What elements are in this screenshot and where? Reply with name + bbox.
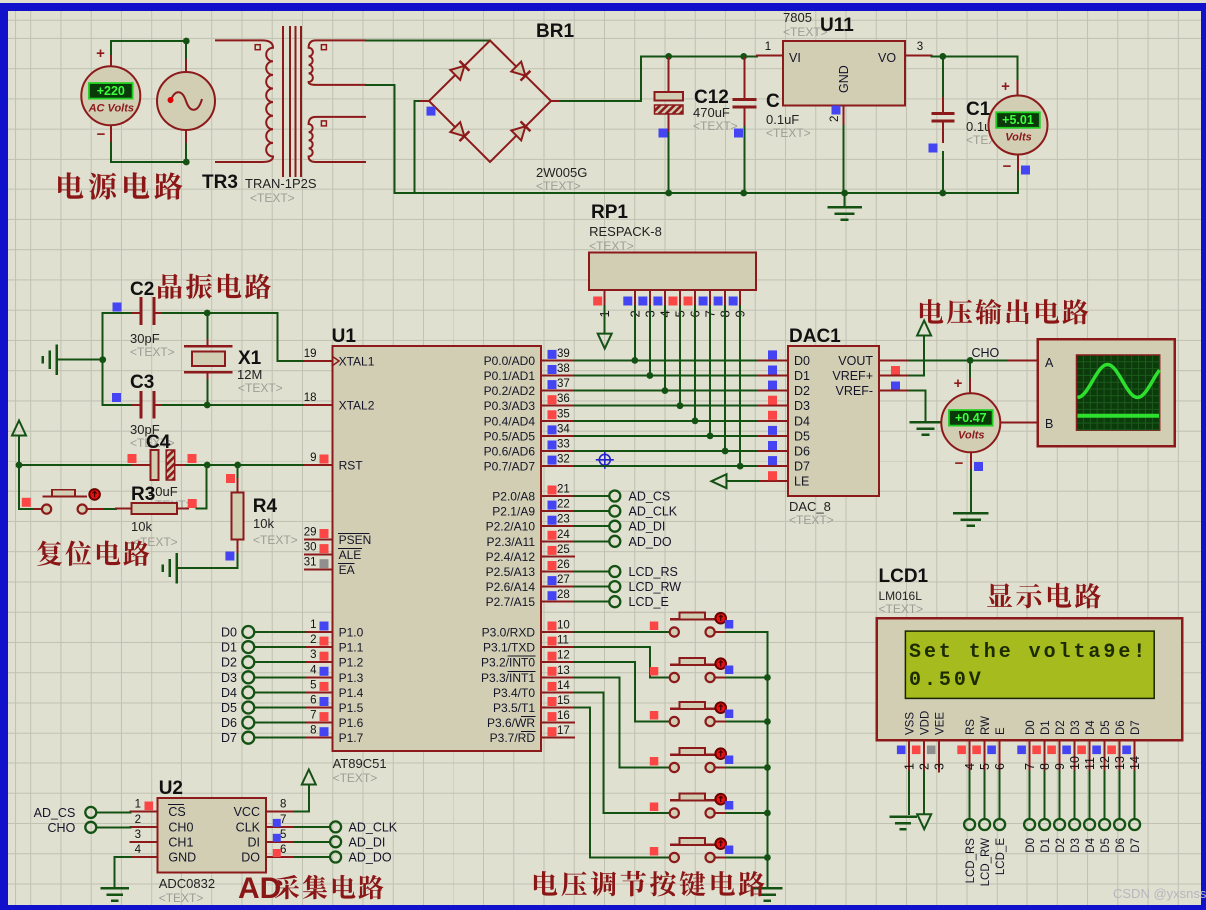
svg-text:AD_CS: AD_CS: [629, 490, 671, 504]
svg-text:D1: D1: [1040, 720, 1052, 735]
pin 37 P0.2/AD2: [541, 390, 574, 392]
svg-text:<TEXT>: <TEXT>: [250, 191, 295, 205]
svg-text:LCD_RS: LCD_RS: [629, 565, 678, 579]
terminal LCD_E: [609, 595, 668, 609]
pin 8 P1.7: [305, 737, 333, 739]
wire P2.2 to AD_DI: [574, 525, 609, 527]
svg-text:AD_DO: AD_DO: [629, 535, 672, 549]
RP1 pin 2: [623, 290, 642, 318]
wire P0.0 to DAC D0: [574, 359, 759, 361]
LCD pin 1 VSS: [897, 712, 917, 772]
svg-text:P2.7/A15: P2.7/A15: [486, 595, 536, 609]
wire D3 to P1.3: [255, 676, 305, 678]
wire RP1 pin2 to P0.0: [634, 306, 636, 360]
svg-text:EA: EA: [339, 563, 355, 577]
svg-text:P2.6/A14: P2.6/A14: [486, 580, 536, 594]
label AT89C51: [333, 756, 387, 785]
label C2 30pF: [130, 279, 175, 359]
title AD采集电路: [238, 872, 384, 905]
wire P3.3 to button4: [574, 677, 670, 767]
svg-text:P3.1/TXD: P3.1/TXD: [483, 641, 535, 655]
terminal LCD_E: [994, 819, 1007, 875]
svg-text:R4: R4: [253, 496, 278, 517]
svg-text:+: +: [96, 45, 105, 62]
svg-text:0.1uF: 0.1uF: [766, 112, 799, 127]
wire VREF- to ground: [910, 391, 926, 421]
DC voltmeter +5.01: [989, 78, 1048, 193]
wire P3.1 to button2: [574, 647, 670, 677]
svg-text:AD_DI: AD_DI: [349, 835, 386, 849]
terminal AD_DO: [609, 535, 672, 549]
svg-text:P1.0: P1.0: [339, 626, 364, 640]
wire RP1 pin5 to P0.3: [679, 306, 681, 406]
pin 18 XTAL2: [305, 404, 333, 406]
wire VO to output node: [932, 56, 1018, 81]
wire D4 to P1.4: [255, 691, 305, 693]
capacitor C1 0.1uF: [933, 56, 953, 193]
svg-text:12: 12: [1098, 756, 1112, 770]
ground symbol power rail: [844, 193, 846, 206]
U2 pin 2 CH0: [130, 814, 193, 835]
terminal AD_DI: [609, 520, 665, 534]
svg-text:CS: CS: [168, 805, 185, 819]
label RP1 RESPACK-8: [589, 202, 662, 253]
wire P0.1 to DAC D1: [574, 375, 759, 377]
svg-text:P2.4/A12: P2.4/A12: [486, 550, 536, 564]
wire LCD pin8 to terminal D1: [1044, 772, 1046, 819]
push button key4: [670, 748, 726, 772]
svg-text:VEE: VEE: [935, 712, 947, 735]
svg-text:D3: D3: [221, 671, 237, 685]
terminal AD_CLK: [609, 505, 677, 519]
svg-text:10: 10: [1068, 756, 1082, 770]
svg-text:D3: D3: [1070, 838, 1082, 853]
LCD pin 13 D6: [1107, 720, 1127, 771]
pin 2 P1.1: [305, 646, 333, 648]
svg-text:D2: D2: [221, 656, 237, 670]
pin 10 P3.0/RXD: [541, 631, 574, 633]
svg-text:VREF-: VREF-: [836, 384, 874, 398]
pin 6 P1.5: [305, 707, 333, 709]
wire button2 to bus: [726, 677, 767, 679]
push button reset: [34, 489, 104, 514]
svg-text:D6: D6: [794, 445, 810, 459]
node button bus: [764, 764, 771, 771]
svg-text:3: 3: [135, 829, 141, 841]
svg-text:AC Volts: AC Volts: [88, 102, 134, 114]
wire U2 to AD_DI: [295, 841, 330, 843]
svg-text:<TEXT>: <TEXT>: [693, 119, 738, 133]
svg-text:VSS: VSS: [905, 712, 917, 735]
svg-text:+: +: [954, 375, 963, 392]
svg-text:RW: RW: [980, 716, 992, 735]
svg-text:31: 31: [304, 557, 317, 569]
svg-text:15: 15: [557, 695, 570, 707]
wire button1 to bus: [726, 631, 767, 633]
wire D7 to P1.7: [255, 737, 305, 739]
svg-text:TRAN-1P2S: TRAN-1P2S: [245, 176, 317, 191]
svg-text:Set the volta9e!: Set the volta9e!: [909, 641, 1148, 664]
pin 7 P1.6: [305, 722, 333, 724]
DAC pin D4: [759, 411, 811, 429]
svg-text:D7: D7: [221, 731, 237, 745]
DAC pin D0: [759, 350, 811, 368]
ground symbol button bus: [753, 887, 781, 890]
DAC pin D6: [759, 441, 811, 459]
svg-text:CHO: CHO: [48, 821, 76, 835]
wire C4 to RST pin: [186, 464, 305, 466]
svg-text:8: 8: [310, 725, 316, 737]
title 显示电路: [987, 583, 1101, 608]
svg-text:D4: D4: [1085, 837, 1097, 852]
pin 1 VI: [757, 55, 783, 57]
svg-text:+220: +220: [97, 84, 125, 98]
svg-text:<TEXT>: <TEXT>: [130, 345, 175, 359]
node button bus: [764, 718, 771, 725]
AC voltmeter PV1 (+220 AC Volts): [81, 45, 140, 143]
node junctions on ground rail: [665, 190, 672, 197]
svg-text:3: 3: [917, 41, 923, 53]
svg-text:2W005G: 2W005G: [536, 165, 587, 180]
pin 23 P2.2/A10: [541, 525, 574, 527]
wire D5 to P1.5: [255, 707, 305, 709]
pin 15 P3.5/T1: [541, 707, 574, 709]
svg-text:D0: D0: [794, 354, 810, 368]
wire P3.0 to button1: [574, 631, 670, 633]
svg-text:P3.3/INT1: P3.3/INT1: [481, 671, 535, 685]
svg-text:D0: D0: [221, 626, 237, 640]
svg-text:LCD_E: LCD_E: [629, 595, 669, 609]
svg-text:XTAL1: XTAL1: [339, 355, 375, 369]
terminal AD_DO: [330, 851, 392, 865]
wire D0 to P1.0: [255, 631, 305, 633]
svg-text:2: 2: [918, 763, 932, 770]
svg-text:D3: D3: [1070, 720, 1082, 735]
pin 9 RST: [305, 464, 333, 466]
svg-text:AD_CLK: AD_CLK: [629, 505, 678, 519]
svg-text:CHO: CHO: [972, 346, 1000, 360]
origin marker: [596, 451, 614, 469]
wire D1 to P1.1: [255, 646, 305, 648]
wire P2.3 to AD_DO: [574, 540, 609, 542]
ground symbol U2: [102, 887, 128, 890]
wire P2.7 to LCD_E: [574, 601, 609, 603]
LCD pin 10 D3: [1062, 720, 1082, 771]
svg-text:VO: VO: [878, 51, 896, 65]
svg-text:R3: R3: [131, 484, 155, 505]
svg-text:D6: D6: [1115, 838, 1127, 853]
wire C2 bus left: [103, 312, 133, 314]
LCD pin 9 D2: [1047, 720, 1067, 771]
svg-text:11: 11: [1083, 757, 1097, 770]
wire P0.6 to DAC D6: [574, 450, 759, 452]
node P0.5 junction: [707, 433, 714, 440]
wire button6 to bus: [726, 857, 767, 859]
DAC pin LE: [759, 471, 810, 489]
svg-text:C3: C3: [130, 372, 154, 393]
svg-text:37: 37: [557, 378, 570, 390]
pin 5 P1.4: [305, 691, 333, 693]
wire AD_CS to U2: [97, 811, 131, 813]
svg-text:P2.1/A9: P2.1/A9: [492, 505, 535, 519]
ground rail bottom: [395, 192, 1018, 194]
svg-text:D4: D4: [1085, 720, 1097, 735]
wire CHO to voltmeter: [969, 360, 971, 379]
svg-text:<TEXT>: <TEXT>: [333, 771, 378, 785]
svg-text:P1.2: P1.2: [339, 656, 364, 670]
svg-text:C1: C1: [966, 99, 991, 120]
svg-text:VREF+: VREF+: [832, 369, 873, 383]
wire RST rail: [19, 464, 133, 466]
wire C3 to XTAL2: [163, 404, 305, 406]
U2 pin 5 DI: [248, 829, 296, 850]
svg-text:LCD1: LCD1: [879, 566, 929, 587]
DAC U3 DAC_8 body: [788, 346, 879, 496]
svg-text:P3.4/T0: P3.4/T0: [493, 686, 535, 700]
label C1 0.1uF: [966, 99, 996, 147]
pin 33 P0.6/AD6: [541, 450, 574, 452]
svg-text:13: 13: [557, 665, 570, 677]
node button bus: [764, 674, 771, 681]
terminal D1: [1039, 819, 1052, 853]
bridge rectifier BR1: [429, 41, 551, 163]
pin 29 PSEN: [305, 539, 333, 541]
svg-text:29: 29: [304, 527, 317, 539]
wire P2.6 to LCD_RW: [574, 586, 609, 588]
node P0.4 junction: [692, 417, 699, 424]
terminal D4: [1084, 819, 1097, 853]
RP1 pin 6: [684, 290, 703, 318]
svg-text:<TEXT>: <TEXT>: [879, 602, 924, 616]
svg-text:P3.0/RXD: P3.0/RXD: [482, 626, 536, 640]
svg-text:P2.2/A10: P2.2/A10: [486, 520, 536, 534]
svg-text:AD_DI: AD_DI: [629, 520, 666, 534]
label C4 10uF: [146, 432, 193, 512]
AC source V1: [157, 41, 215, 162]
svg-text:2: 2: [310, 634, 316, 646]
label BR1 2W005G: [536, 21, 587, 193]
LCD pin 5 RW: [972, 716, 992, 772]
svg-text:D1: D1: [1040, 838, 1052, 853]
svg-text:36: 36: [557, 393, 570, 405]
ground symbol voltmeter: [954, 512, 987, 515]
terminal CHO U2: [48, 821, 97, 835]
push button key2: [670, 658, 726, 682]
svg-text:D5: D5: [1100, 838, 1112, 853]
LCD screen: [905, 631, 1154, 698]
pin 3 P1.2: [305, 661, 333, 663]
wire U2 GND to ground: [115, 857, 131, 887]
svg-text:10k: 10k: [253, 516, 274, 531]
svg-text:P1.5: P1.5: [339, 701, 364, 715]
svg-text:P2.5/A13: P2.5/A13: [486, 565, 536, 579]
svg-text:0.50V: 0.50V: [909, 669, 984, 692]
svg-text:P3.2/INT0: P3.2/INT0: [481, 656, 535, 670]
svg-text:4: 4: [310, 664, 317, 676]
svg-text:LCD_RS: LCD_RS: [965, 838, 977, 884]
svg-text:P2.0/A8: P2.0/A8: [492, 490, 535, 504]
svg-text:P1.4: P1.4: [339, 686, 364, 700]
svg-text:D5: D5: [221, 701, 237, 715]
svg-text:P0.6/AD6: P0.6/AD6: [484, 445, 536, 459]
label DAC1 DAC_8: [789, 326, 841, 527]
wire LCD pin5 to terminal LCD_RW: [984, 772, 986, 819]
pin 31 EA: [305, 569, 333, 571]
DAC pin VREF-: [836, 384, 910, 398]
pin 16 P3.6/WR: [541, 722, 574, 724]
pin 2 GND: [843, 106, 845, 127]
regulator U11 7805: [783, 41, 905, 106]
svg-text:P0.0/AD0: P0.0/AD0: [484, 354, 536, 368]
svg-text:6: 6: [280, 844, 286, 856]
svg-text:LCD_RW: LCD_RW: [980, 838, 992, 886]
svg-text:−: −: [955, 455, 964, 472]
pin 19 XTAL1: [305, 360, 333, 362]
RP1 pin 3: [638, 290, 657, 318]
transformer TR3 secondary upper coil: [309, 40, 366, 85]
svg-text:A: A: [1045, 356, 1054, 370]
node junction top-left: [183, 38, 190, 45]
wire VOUT to CHO node: [910, 359, 1009, 361]
LCD pin 7 D0: [1017, 720, 1037, 771]
terminal D2: [1054, 819, 1067, 853]
svg-text:LM016L: LM016L: [879, 589, 923, 603]
terminal LCD_RW: [979, 819, 992, 886]
pin 27 P2.6/A14: [541, 586, 574, 588]
label U2 ADC0832: [159, 778, 215, 905]
svg-text:8: 8: [1038, 763, 1052, 770]
LCD pin 8 D1: [1032, 720, 1052, 771]
svg-text:<TEXT>: <TEXT>: [238, 381, 283, 395]
crystal bus vertical: [102, 313, 104, 405]
wire P3.4 to button5: [574, 692, 670, 813]
svg-text:P1.3: P1.3: [339, 671, 364, 685]
node P0.1 junction: [646, 372, 653, 379]
svg-text:D1: D1: [794, 369, 810, 383]
wire U2 VCC to power: [295, 786, 309, 812]
node P0.0 junction: [631, 357, 638, 364]
svg-text:D6: D6: [1115, 720, 1127, 735]
wire RP1 pin9 to P0.7: [739, 306, 741, 466]
wire RP1 pin8 to P0.6: [724, 306, 726, 451]
terminal D6: [1114, 819, 1127, 853]
svg-text:17: 17: [557, 725, 570, 737]
terminal D1 left: [221, 641, 254, 655]
terminal D0: [1024, 819, 1037, 853]
label R3 10k and C4 text: [131, 484, 178, 549]
node P0.6 junction: [722, 448, 729, 455]
pin 25 P2.4/A12: [541, 555, 574, 557]
wire D6 to P1.6: [255, 722, 305, 724]
svg-text:7: 7: [1023, 763, 1037, 770]
svg-text:Volts: Volts: [1005, 132, 1032, 144]
terminal D3: [1069, 819, 1082, 853]
node P0.3 junction: [677, 402, 684, 409]
svg-text:BR1: BR1: [536, 21, 574, 42]
svg-text:D5: D5: [1100, 720, 1112, 735]
svg-text:<TEXT>: <TEXT>: [589, 239, 634, 253]
wire button to R3: [104, 508, 116, 510]
wire P0.3 to DAC D3: [574, 405, 759, 407]
svg-text:2: 2: [829, 116, 841, 122]
RP1 pin 7: [699, 290, 718, 318]
svg-text:P2.3/A11: P2.3/A11: [487, 535, 536, 549]
pin 34 P0.5/AD5: [541, 435, 574, 437]
svg-text:1: 1: [310, 619, 316, 631]
svg-text:D2: D2: [794, 384, 810, 398]
svg-text:10k: 10k: [131, 519, 152, 534]
svg-text:C2: C2: [130, 279, 154, 300]
svg-text:U1: U1: [332, 326, 357, 347]
svg-text:7805: 7805: [783, 10, 812, 25]
svg-text:D0: D0: [1025, 838, 1037, 853]
DAC pin VOUT: [838, 354, 909, 375]
wire LE to input terminal: [726, 480, 758, 482]
terminal AD_CS: [609, 490, 670, 504]
label R4 10k: [253, 496, 298, 547]
svg-text:AT89C51: AT89C51: [333, 756, 387, 771]
svg-text:AD_DO: AD_DO: [349, 851, 392, 865]
U2 pin 1 CS: [130, 799, 185, 820]
svg-text:GND: GND: [837, 65, 851, 93]
ground symbol crystal: [55, 346, 58, 374]
title 复位电路: [37, 541, 149, 566]
svg-text:XTAL2: XTAL2: [339, 399, 375, 413]
svg-text:D5: D5: [794, 429, 810, 443]
wire LCD pin12 to terminal D5: [1104, 772, 1106, 819]
pin 32 P0.7/AD7: [541, 465, 574, 467]
svg-text:6: 6: [310, 695, 316, 707]
wire VCC down to reset button: [19, 465, 34, 509]
svg-text:<TEXT>: <TEXT>: [159, 891, 204, 905]
svg-text:3: 3: [933, 763, 947, 770]
svg-text:C4: C4: [146, 432, 171, 453]
svg-text:23: 23: [557, 514, 570, 526]
transformer TR3 secondary lower coil: [309, 117, 366, 162]
node P0.7 junction: [737, 463, 744, 470]
oscilloscope body: [1038, 339, 1175, 446]
svg-text:GND: GND: [168, 851, 196, 865]
pin 21 P2.0/A8: [541, 495, 574, 497]
svg-text:CH1: CH1: [168, 835, 193, 849]
pin 1 P1.0: [305, 631, 333, 633]
wire LCD pin4 to terminal LCD_RS: [969, 772, 971, 819]
svg-text:U11: U11: [820, 15, 854, 36]
pin 12 P3.2/INT0: [541, 661, 574, 663]
svg-text:+: +: [1001, 78, 1010, 95]
svg-text:D2: D2: [1055, 838, 1067, 853]
svg-text:5: 5: [280, 829, 286, 841]
label LCD1 LM016L: [879, 566, 929, 616]
svg-text:ALE: ALE: [339, 548, 362, 562]
ground symbol VREF-: [911, 421, 940, 424]
pin 24 P2.3/A11: [541, 540, 574, 542]
svg-text:AD_CLK: AD_CLK: [349, 820, 398, 834]
svg-text:RESPACK-8: RESPACK-8: [589, 224, 662, 239]
oscilloscope screen: [1077, 355, 1160, 430]
terminal LCD_RW: [609, 580, 681, 594]
svg-text:<TEXT>: <TEXT>: [789, 513, 834, 527]
RP1 pin 4: [653, 290, 672, 318]
RP1 pin 1: [593, 290, 612, 318]
LCD pin 2 VDD: [912, 711, 932, 772]
svg-text:+0.47: +0.47: [955, 411, 987, 425]
LCD pin 3 VEE: [927, 712, 947, 772]
svg-text:10: 10: [557, 620, 570, 632]
svg-text:7: 7: [280, 814, 286, 826]
svg-text:CSDN @yxsnss: CSDN @yxsnss: [1113, 886, 1206, 901]
capacitor C3 30pF: [133, 392, 163, 417]
